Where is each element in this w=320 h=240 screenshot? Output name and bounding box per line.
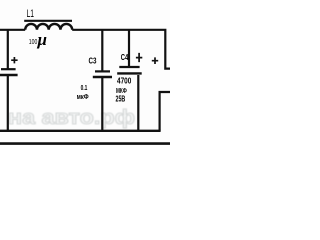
svg-text:100: 100 [29,37,38,46]
svg-text:C3: C3 [89,55,97,65]
svg-text:0.1: 0.1 [81,85,88,92]
svg-text:25В: 25В [116,95,126,104]
svg-text:μ: μ [37,30,47,49]
svg-text:L1: L1 [27,8,35,20]
svg-text:мкФ: мкФ [77,94,89,101]
svg-text:C4: C4 [121,52,129,62]
svg-text:на авто.рф: на авто.рф [8,107,135,129]
svg-text:4700: 4700 [117,75,131,85]
